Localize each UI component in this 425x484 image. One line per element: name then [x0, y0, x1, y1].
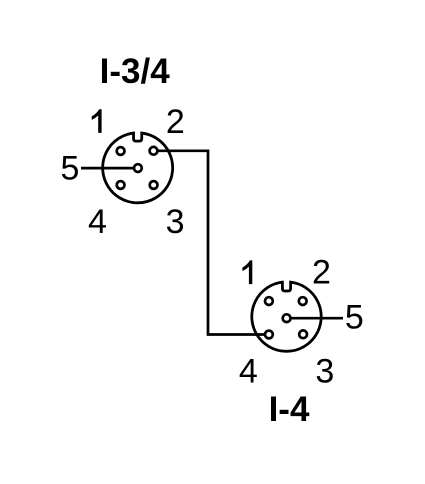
svg-text:3: 3 [166, 203, 185, 241]
svg-text:5: 5 [345, 298, 364, 336]
svg-text:2: 2 [166, 103, 185, 141]
svg-text:4: 4 [88, 203, 107, 241]
svg-text:I-4: I-4 [269, 390, 310, 429]
svg-text:5: 5 [61, 150, 80, 188]
svg-text:2: 2 [312, 254, 331, 292]
svg-text:I-3/4: I-3/4 [100, 52, 171, 91]
svg-text:4: 4 [239, 352, 258, 390]
svg-text:3: 3 [315, 352, 334, 390]
